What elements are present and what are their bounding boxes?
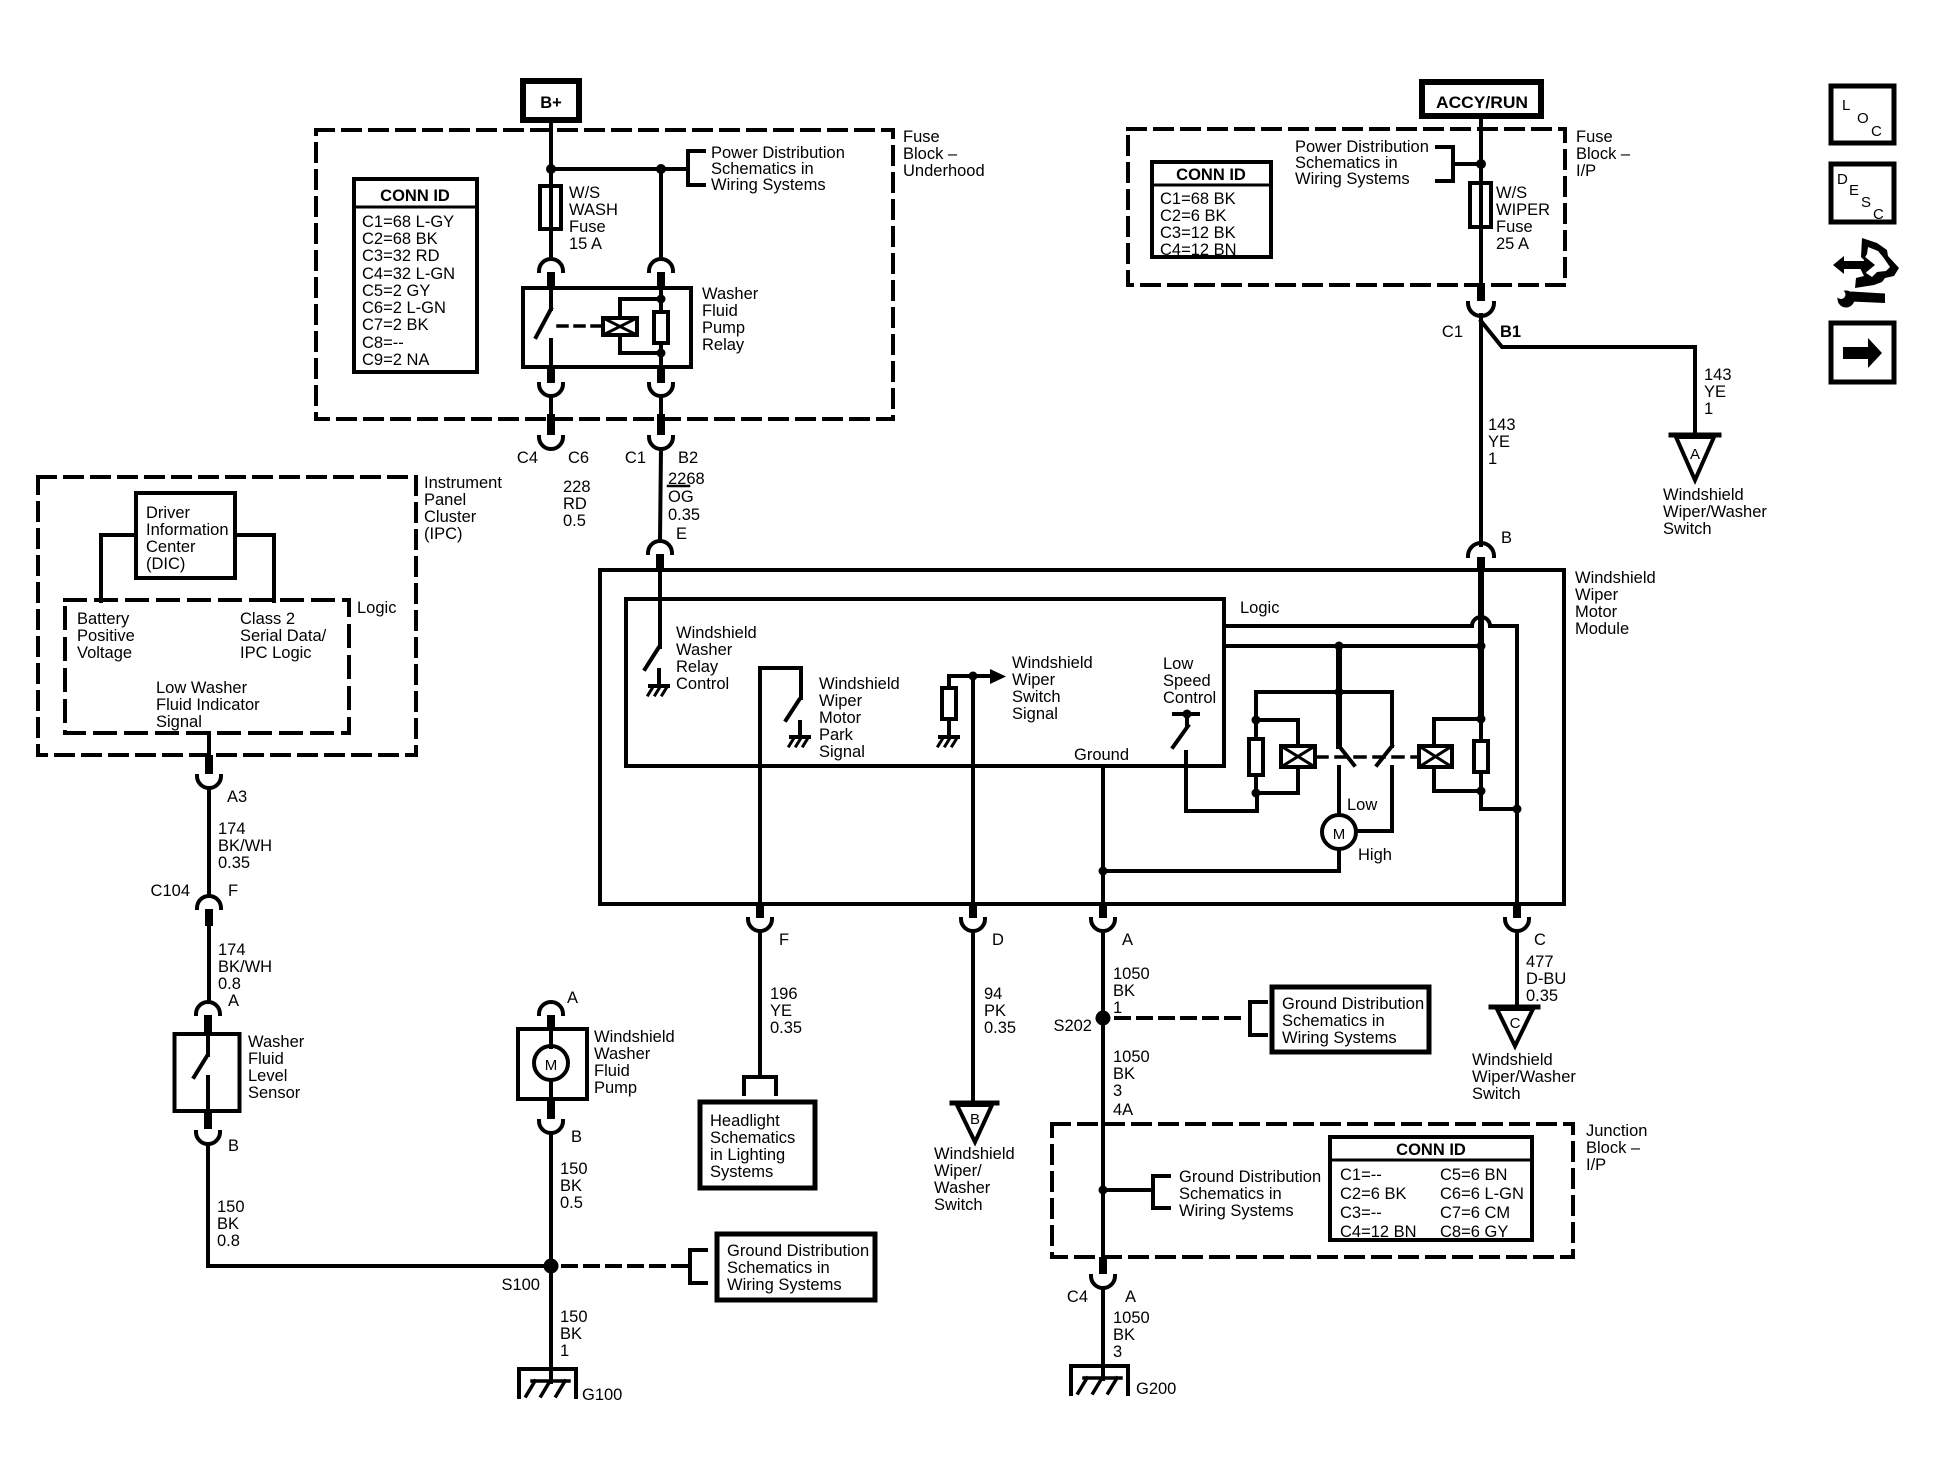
svg-text:BK: BK <box>1113 982 1135 1000</box>
svg-text:A: A <box>1690 446 1700 463</box>
svg-text:Relay: Relay <box>702 336 745 354</box>
svg-text:D-BU: D-BU <box>1526 970 1566 988</box>
svg-text:ACCY/RUN: ACCY/RUN <box>1436 94 1528 112</box>
svg-text:C3=12 BK: C3=12 BK <box>1160 224 1236 242</box>
svg-text:Windshield: Windshield <box>934 1145 1015 1163</box>
svg-text:Module: Module <box>1575 620 1629 638</box>
label Fuse Block Underhood <box>903 128 985 180</box>
svg-text:Switch: Switch <box>934 1196 983 1214</box>
svg-text:Sensor: Sensor <box>248 1084 301 1102</box>
svg-text:Panel: Panel <box>424 491 466 509</box>
svg-text:G200: G200 <box>1136 1380 1176 1398</box>
svg-text:F: F <box>779 931 789 949</box>
icon pointer with wrench <box>1833 238 1899 308</box>
wire 150 BK 0.8 to S100 <box>208 1144 549 1266</box>
svg-text:F: F <box>228 882 238 900</box>
logic output second wire <box>1224 644 1481 648</box>
svg-text:in Lighting: in Lighting <box>710 1146 785 1164</box>
svg-text:Instrument: Instrument <box>424 474 502 492</box>
washer fluid level sensor box <box>175 1034 240 1111</box>
svg-text:Fuse: Fuse <box>569 218 606 236</box>
wire 228 RD 0.5 labels <box>563 470 705 530</box>
svg-text:0.5: 0.5 <box>560 1194 583 1212</box>
svg-text:C3=--: C3=-- <box>1340 1204 1382 1222</box>
svg-text:Motor: Motor <box>1575 603 1618 621</box>
svg-text:Block –: Block – <box>1576 145 1631 163</box>
svg-text:94: 94 <box>984 985 1002 1003</box>
pin stub C module <box>1513 903 1521 918</box>
svg-text:BK: BK <box>1113 1065 1135 1083</box>
svg-text:A: A <box>567 989 578 1007</box>
svg-text:0.35: 0.35 <box>984 1019 1016 1037</box>
svg-text:Park: Park <box>819 726 854 744</box>
svg-text:Ground Distribution: Ground Distribution <box>1179 1168 1321 1186</box>
svg-text:174: 174 <box>218 820 246 838</box>
svg-text:Wiring Systems: Wiring Systems <box>1179 1202 1294 1220</box>
svg-text:Ground Distribution: Ground Distribution <box>1282 995 1424 1013</box>
svg-text:C5=6 BN: C5=6 BN <box>1440 1166 1507 1184</box>
svg-text:C1=68 L-GY: C1=68 L-GY <box>362 213 454 231</box>
svg-text:C2=6 BK: C2=6 BK <box>1160 207 1227 225</box>
node S100 <box>544 1259 559 1274</box>
svg-text:Low: Low <box>1347 796 1377 814</box>
pin stub A3 <box>205 755 213 774</box>
wire B+ down <box>549 120 553 186</box>
svg-text:Wiring Systems: Wiring Systems <box>727 1276 842 1294</box>
svg-text:Underhood: Underhood <box>903 162 985 180</box>
ground G100 <box>519 1369 576 1397</box>
svg-text:Wiring Systems: Wiring Systems <box>1282 1029 1397 1047</box>
svg-text:Logic: Logic <box>1240 599 1279 617</box>
wiper switch signal divider <box>942 676 956 735</box>
svg-text:C7=6 CM: C7=6 CM <box>1440 1204 1510 1222</box>
svg-text:Control: Control <box>1163 689 1216 707</box>
label ground <box>1074 746 1129 764</box>
wiper motor park signal switch <box>760 668 801 903</box>
svg-text:E: E <box>676 525 687 543</box>
svg-text:C4: C4 <box>517 449 538 467</box>
connector arc pump B <box>539 1121 563 1133</box>
svg-text:Fluid: Fluid <box>702 302 738 320</box>
svg-text:BK: BK <box>217 1215 239 1233</box>
svg-text:Schematics in: Schematics in <box>1282 1012 1385 1030</box>
svg-text:1: 1 <box>560 1342 569 1360</box>
wire relay top rail <box>1256 690 1392 694</box>
svg-text:I/P: I/P <box>1586 1156 1606 1174</box>
svg-text:Serial Data/: Serial Data/ <box>240 627 327 645</box>
svg-text:25 A: 25 A <box>1496 235 1529 253</box>
svg-text:0.35: 0.35 <box>770 1019 802 1037</box>
svg-text:0.35: 0.35 <box>668 506 700 524</box>
svg-text:Wiring Systems: Wiring Systems <box>711 176 826 194</box>
svg-text:3: 3 <box>1113 1343 1122 1361</box>
svg-text:Driver: Driver <box>146 504 191 522</box>
connector arc C1/B1 <box>1468 303 1494 316</box>
svg-text:477: 477 <box>1526 953 1554 971</box>
left relay circuit <box>1249 692 1298 798</box>
svg-text:YE: YE <box>1704 383 1726 401</box>
svg-text:C8=--: C8=-- <box>362 334 404 352</box>
svg-text:C9=2 NA: C9=2 NA <box>362 351 429 369</box>
svg-text:Battery: Battery <box>77 610 130 628</box>
svg-text:Block –: Block – <box>903 145 958 163</box>
svg-text:CONN ID: CONN ID <box>1176 166 1246 184</box>
svg-text:S: S <box>1861 194 1871 211</box>
connector arc A into sensor <box>196 1002 220 1014</box>
svg-text:Washer: Washer <box>676 641 733 659</box>
svg-text:Switch: Switch <box>1663 520 1712 538</box>
svg-text:C3=32 RD: C3=32 RD <box>362 247 440 265</box>
svg-text:(IPC): (IPC) <box>424 525 463 543</box>
svg-text:Wiper: Wiper <box>1575 586 1619 604</box>
right relay coil X box <box>1419 746 1452 767</box>
reference bracket power distribution <box>688 151 704 185</box>
logic output top wire with hop <box>1224 617 1517 903</box>
IPC logic box <box>65 600 349 733</box>
fuse W/S WIPER 25A <box>1470 183 1491 227</box>
wiper motor module box <box>600 570 1564 904</box>
svg-text:Fluid: Fluid <box>248 1050 284 1068</box>
svg-text:S202: S202 <box>1053 1017 1092 1035</box>
relay switch contact <box>549 288 553 309</box>
svg-text:B: B <box>970 1111 980 1128</box>
module logic box <box>626 599 1224 766</box>
svg-text:Headlight: Headlight <box>710 1112 780 1130</box>
pin stub C4 <box>547 414 555 435</box>
connector arc F <box>748 919 772 931</box>
wire DIC left leg <box>101 535 136 601</box>
svg-text:YE: YE <box>770 1002 792 1020</box>
reference bracket power distribution I/P <box>1437 147 1453 181</box>
pin stub D <box>969 903 977 918</box>
connector C104 <box>197 896 221 908</box>
svg-text:A3: A3 <box>227 788 247 806</box>
svg-text:O: O <box>1857 110 1869 127</box>
icon DESC button <box>1831 164 1894 223</box>
connector arc into relay right <box>649 259 673 271</box>
dashed wire S100 to ground ref <box>563 1264 688 1268</box>
svg-text:BK/WH: BK/WH <box>218 958 272 976</box>
wire low speed to relay coil <box>1186 752 1257 811</box>
svg-text:Level: Level <box>248 1067 287 1085</box>
pin stub B <box>1477 557 1485 571</box>
svg-text:Windshield: Windshield <box>1472 1051 1553 1069</box>
svg-text:B: B <box>571 1128 582 1146</box>
svg-text:Block –: Block – <box>1586 1139 1641 1157</box>
svg-text:Relay: Relay <box>676 658 719 676</box>
svg-text:B: B <box>1501 529 1512 547</box>
svg-text:OG: OG <box>668 488 694 506</box>
svg-text:YE: YE <box>1488 433 1510 451</box>
pin stub relay left bottom <box>547 367 555 383</box>
wire through fuse F1 <box>549 186 553 259</box>
svg-text:C4: C4 <box>1067 1288 1088 1306</box>
svg-text:High: High <box>1358 846 1392 864</box>
svg-text:3: 3 <box>1113 1082 1122 1100</box>
svg-text:Cluster: Cluster <box>424 508 477 526</box>
windshield washer fluid pump <box>518 1029 587 1099</box>
reference bracket ground distribution JB <box>1153 1176 1169 1208</box>
node junction at relay feed <box>656 164 666 174</box>
washer relay control switch <box>645 570 660 684</box>
svg-text:BK: BK <box>1113 1326 1135 1344</box>
svg-text:150: 150 <box>217 1198 245 1216</box>
svg-text:W/S: W/S <box>569 184 600 202</box>
svg-text:1050: 1050 <box>1113 1048 1150 1066</box>
relay mechanical link dashes <box>558 324 600 328</box>
connector arc C1/B2 <box>649 437 673 449</box>
wire 477 D-BU <box>1515 931 1519 1005</box>
high speed contact blade <box>1356 692 1392 831</box>
icon next arrow button <box>1831 323 1894 382</box>
connector arc B into module <box>1468 543 1494 556</box>
connector arc C module <box>1505 919 1529 931</box>
connector arc A3 <box>197 776 221 788</box>
wire ACCY/RUN down <box>1479 116 1483 259</box>
svg-text:Fuse: Fuse <box>903 128 940 146</box>
svg-text:CONN ID: CONN ID <box>380 187 450 205</box>
CONN ID table I/P <box>1152 162 1271 259</box>
svg-text:0.35: 0.35 <box>218 854 250 872</box>
wire switch signal node <box>949 674 973 678</box>
svg-text:Junction: Junction <box>1586 1122 1647 1140</box>
wire underline 2268 <box>668 485 689 488</box>
svg-text:A: A <box>1125 1288 1136 1306</box>
wire bracket to bus <box>1453 162 1481 166</box>
svg-text:0.8: 0.8 <box>218 975 241 993</box>
wire bus to bracket <box>551 167 688 171</box>
wire D from switch signal <box>971 676 975 903</box>
svg-text:Voltage: Voltage <box>77 644 132 662</box>
svg-text:Signal: Signal <box>1012 705 1058 723</box>
connector arc sensor B <box>196 1132 220 1144</box>
svg-text:B2: B2 <box>678 449 698 467</box>
ground symbol park signal <box>789 737 809 746</box>
wire 150 BK 0.5 <box>549 1133 553 1266</box>
wire 1050 BK 3 <box>1101 1018 1105 1257</box>
svg-text:Windshield: Windshield <box>1663 486 1744 504</box>
svg-text:C104: C104 <box>151 882 190 900</box>
label Fuse Block I/P <box>1576 128 1631 180</box>
svg-text:B1: B1 <box>1500 323 1521 341</box>
wire 196 YE <box>758 931 762 1076</box>
node junction at fuse feed <box>546 164 556 174</box>
svg-text:1: 1 <box>1113 999 1122 1017</box>
svg-text:RD: RD <box>563 495 587 513</box>
svg-text:C8=6 GY: C8=6 GY <box>1440 1223 1508 1241</box>
wire 174 BK/WH 0.35 <box>207 788 211 894</box>
pin stub E into module <box>656 554 664 572</box>
svg-text:Motor: Motor <box>819 709 862 727</box>
ground distribution box S202 <box>1272 987 1429 1052</box>
svg-text:BK: BK <box>560 1177 582 1195</box>
svg-text:Information: Information <box>146 521 229 539</box>
node junction accy feed <box>1476 159 1486 169</box>
svg-text:Positive: Positive <box>77 627 135 645</box>
svg-text:Wiper/: Wiper/ <box>934 1162 982 1180</box>
off-page triangle A wiper/washer switch <box>1671 435 1719 480</box>
svg-text:Low: Low <box>1163 655 1193 673</box>
svg-text:C4=12 BN: C4=12 BN <box>1160 241 1237 259</box>
svg-text:Signal: Signal <box>819 743 865 761</box>
svg-text:Pump: Pump <box>594 1079 637 1097</box>
svg-text:Windshield: Windshield <box>1012 654 1093 672</box>
junction block I/P box <box>1052 1124 1573 1257</box>
wire 1050 BK 1 <box>1101 931 1105 1018</box>
svg-text:143: 143 <box>1488 416 1516 434</box>
svg-text:Windshield: Windshield <box>1575 569 1656 587</box>
dashed wire S202 to ground ref <box>1116 1016 1246 1020</box>
pin stub pump B <box>547 1099 555 1119</box>
relay coil X box <box>603 318 637 335</box>
pin stub A module <box>1099 903 1107 918</box>
connector arc below relay left <box>539 384 563 396</box>
node ACCY/RUN <box>1422 82 1541 116</box>
svg-text:228: 228 <box>563 478 591 496</box>
wire 1050 BK 3 to G200 <box>1101 1288 1105 1379</box>
svg-text:Control: Control <box>676 675 729 693</box>
CONN ID table underhood <box>354 179 477 372</box>
svg-text:Fluid: Fluid <box>594 1062 630 1080</box>
svg-text:C7=2 BK: C7=2 BK <box>362 316 429 334</box>
svg-text:C6: C6 <box>568 449 589 467</box>
ground G200 <box>1071 1366 1128 1394</box>
svg-text:G100: G100 <box>582 1386 622 1404</box>
svg-text:C: C <box>1873 206 1884 223</box>
wire motor to ground bus <box>1103 849 1339 871</box>
svg-text:Fuse: Fuse <box>1576 128 1613 146</box>
connector arc E <box>648 541 672 553</box>
fuse W/S WASH 15A <box>540 186 561 229</box>
svg-text:Systems: Systems <box>710 1163 773 1181</box>
wire 143 YE down <box>1479 315 1483 545</box>
wire right relay to C line <box>1481 791 1517 809</box>
pin stub relay left top <box>547 272 555 288</box>
relay coil branch <box>620 299 661 318</box>
svg-text:(DIC): (DIC) <box>146 555 185 573</box>
svg-text:Windshield: Windshield <box>676 624 757 642</box>
svg-text:C6=6 L-GN: C6=6 L-GN <box>1440 1185 1524 1203</box>
svg-text:Wiring Systems: Wiring Systems <box>1295 170 1410 188</box>
svg-text:Schematics in: Schematics in <box>727 1259 830 1277</box>
svg-text:A: A <box>228 992 239 1010</box>
svg-text:C: C <box>1510 1015 1521 1032</box>
svg-text:0.8: 0.8 <box>217 1232 240 1250</box>
svg-text:IPC Logic: IPC Logic <box>240 644 312 662</box>
svg-text:1: 1 <box>1704 400 1713 418</box>
wire relay coil feed <box>659 169 663 259</box>
svg-text:Schematics: Schematics <box>710 1129 795 1147</box>
ground symbol switch signal <box>938 737 958 746</box>
svg-text:C1: C1 <box>1442 323 1463 341</box>
svg-text:BK/WH: BK/WH <box>218 837 272 855</box>
svg-text:BK: BK <box>560 1325 582 1343</box>
svg-text:C6=2 L-GN: C6=2 L-GN <box>362 299 446 317</box>
wire 150 BK 1 to G100 <box>549 1266 553 1382</box>
svg-text:Ground Distribution: Ground Distribution <box>727 1242 869 1260</box>
label 143 YE 1 right <box>1704 366 1732 418</box>
svg-text:Center: Center <box>146 538 196 556</box>
relay resistor <box>659 288 663 312</box>
arrow wiper switch signal <box>973 674 990 678</box>
svg-text:Switch: Switch <box>1012 688 1061 706</box>
svg-text:C: C <box>1534 931 1546 949</box>
off-page triangle B wiper/washer switch <box>952 1103 997 1142</box>
svg-text:C1=68 BK: C1=68 BK <box>1160 190 1236 208</box>
node junction block tap <box>1099 1186 1108 1195</box>
ground symbol relay control <box>648 686 668 695</box>
svg-text:150: 150 <box>560 1308 588 1326</box>
svg-text:Windshield: Windshield <box>819 675 900 693</box>
svg-text:Washer: Washer <box>934 1179 991 1197</box>
svg-text:150: 150 <box>560 1160 588 1178</box>
svg-text:Pump: Pump <box>702 319 745 337</box>
svg-text:Washer: Washer <box>702 285 759 303</box>
svg-text:M: M <box>1333 826 1346 843</box>
svg-text:Signal: Signal <box>156 713 202 731</box>
pin stub C1/B1 <box>1479 227 1483 288</box>
svg-text:E: E <box>1849 182 1859 199</box>
wire A ground <box>1101 766 1105 903</box>
wire center contact feed <box>1336 646 1342 692</box>
reference bracket ground distribution S202 <box>1250 1002 1266 1035</box>
svg-text:WIPER: WIPER <box>1496 201 1550 219</box>
connector arc A into pump <box>539 1002 563 1014</box>
svg-text:Low Washer: Low Washer <box>156 679 248 697</box>
svg-text:C2=6 BK: C2=6 BK <box>1340 1185 1407 1203</box>
pin stub C1 <box>657 414 665 435</box>
svg-text:174: 174 <box>218 941 246 959</box>
svg-text:0.35: 0.35 <box>1526 987 1558 1005</box>
svg-text:Wiper/Washer: Wiper/Washer <box>1663 503 1767 521</box>
svg-text:0.5: 0.5 <box>563 512 586 530</box>
svg-text:Fuse: Fuse <box>1496 218 1533 236</box>
fuse block I/P box <box>1128 129 1565 285</box>
svg-text:C4=32 L-GN: C4=32 L-GN <box>362 265 455 283</box>
pin stub F <box>756 903 764 918</box>
svg-text:CONN ID: CONN ID <box>1396 1141 1466 1159</box>
pin stub C4/A <box>1099 1257 1107 1274</box>
svg-text:Fluid Indicator: Fluid Indicator <box>156 696 260 714</box>
svg-text:1: 1 <box>1488 450 1497 468</box>
wire low washer signal down <box>207 733 211 755</box>
svg-text:Wiper/Washer: Wiper/Washer <box>1472 1068 1576 1086</box>
svg-text:B+: B+ <box>540 94 562 112</box>
svg-text:PK: PK <box>984 1002 1006 1020</box>
svg-text:C5=2 GY: C5=2 GY <box>362 282 430 300</box>
svg-text:15 A: 15 A <box>569 235 602 253</box>
wire C4 feed <box>549 396 553 414</box>
relay box washer fluid pump relay <box>523 288 691 367</box>
svg-text:Wiper: Wiper <box>1012 671 1056 689</box>
IPC box <box>38 477 416 755</box>
svg-text:Windshield: Windshield <box>594 1028 675 1046</box>
svg-text:W/S: W/S <box>1496 184 1527 202</box>
connector arc D <box>961 919 985 931</box>
relay link dashes <box>1317 755 1417 759</box>
node B+ <box>523 81 579 120</box>
ground distribution box S100 <box>717 1234 875 1300</box>
svg-text:C1=--: C1=-- <box>1340 1166 1382 1184</box>
wire DIC right leg <box>235 535 274 601</box>
left relay coil X box <box>1281 746 1315 767</box>
svg-text:Ground: Ground <box>1074 746 1129 764</box>
node S202 <box>1096 1011 1111 1026</box>
wiper motor M <box>1322 815 1356 849</box>
pin stub sensor B <box>204 1111 212 1129</box>
icon LOC button <box>1831 86 1894 143</box>
headlight schematics box <box>700 1102 815 1188</box>
